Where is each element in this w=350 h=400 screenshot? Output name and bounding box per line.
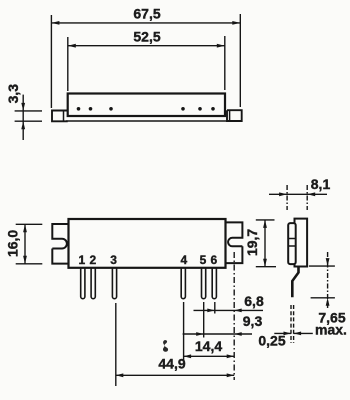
pin 5 (202, 268, 206, 299)
dimension 3,3 (15, 95, 42, 140)
dimension 8,1 (269, 185, 327, 210)
svg-text:14,4: 14,4 (195, 338, 222, 354)
svg-text:9,3: 9,3 (243, 313, 263, 329)
svg-text:max.: max. (315, 322, 347, 338)
svg-text:1: 1 (78, 253, 85, 267)
svg-text:19,7: 19,7 (244, 229, 260, 256)
front view: left flange tab with slot (52, 224, 68, 264)
tab centre line (233, 252, 235, 380)
dimension 9,3 (183, 332, 252, 336)
svg-text:3,3: 3,3 (5, 84, 21, 104)
svg-text:6,8: 6,8 (244, 293, 264, 309)
extension line below pin 5 (203, 302, 205, 338)
svg-text:0,25: 0,25 (258, 333, 285, 349)
top view: rivet dots (77, 107, 215, 111)
dimension 7,65 max (309, 252, 335, 308)
dimension 67,5 (51, 14, 240, 108)
front view: right flange tab with slot (225, 222, 243, 263)
pin 4 (181, 268, 185, 299)
top view: flange bottom line (66, 120, 228, 122)
extension line below pin 3 (115, 303, 117, 386)
dimension 0,25 lead thickness (274, 305, 313, 343)
svg-text:4: 4 (180, 253, 187, 267)
svg-text:5: 5 (200, 253, 207, 267)
top view: right mounting tab (227, 110, 242, 121)
side view: bent lead (292, 267, 298, 298)
pin number labels (78, 253, 217, 267)
svg-text:8,1: 8,1 (311, 176, 331, 192)
pin 2 (91, 268, 95, 299)
extension line below pin 4 (183, 302, 185, 360)
side view: cap body (295, 219, 308, 267)
pin 3 (112, 268, 116, 299)
dimension 52,5 (68, 36, 225, 91)
svg-text:6: 6 (210, 253, 217, 267)
svg-text:52,5: 52,5 (133, 28, 160, 44)
svg-text:16,0: 16,0 (5, 230, 21, 257)
side view: front strip with pin marks (288, 223, 296, 264)
svg-text:3: 3 (110, 253, 117, 267)
dimension 14,4 (184, 354, 235, 358)
dimension 44,9 (116, 373, 234, 377)
svg-text:2: 2 (90, 253, 97, 267)
svg-text:44,9: 44,9 (158, 356, 185, 372)
extension line below pin 6 (214, 302, 216, 314)
dimension 6,8 (194, 309, 264, 313)
front view: package body (69, 219, 226, 268)
svg-text:67,5: 67,5 (133, 6, 160, 22)
top view: left mounting tab (52, 111, 68, 122)
seating plane mark (163, 340, 168, 352)
pin 6 (212, 268, 216, 299)
top view: package bar body (68, 94, 225, 117)
dimension 16,0 (16, 224, 43, 263)
dimension 19,7 (256, 220, 276, 267)
pin 1 (81, 268, 85, 299)
